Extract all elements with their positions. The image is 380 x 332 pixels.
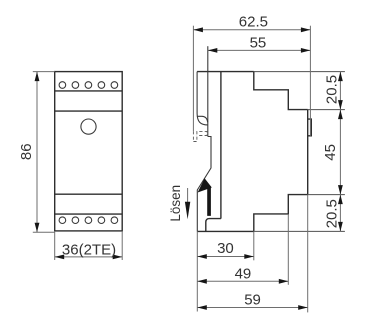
dim 45 arrow up xyxy=(338,110,343,120)
side view lower right step xyxy=(254,195,308,232)
din clip dashed foot xyxy=(193,141,198,143)
dim 20.5 top arrow down xyxy=(338,100,343,110)
dim 49 arrow right xyxy=(279,279,289,284)
side view right edge xyxy=(307,110,309,195)
dim 59 arrow right xyxy=(298,305,308,310)
front view outline xyxy=(55,72,123,231)
svg-text:20.5: 20.5 xyxy=(324,75,341,104)
release arrow thick xyxy=(207,186,211,216)
dim 86 arrow down xyxy=(35,223,40,233)
dim 36(2TE) line xyxy=(55,256,123,258)
dim 45 line xyxy=(339,110,341,195)
svg-text:30: 30 xyxy=(217,240,234,257)
side view foot xyxy=(206,219,221,232)
extension at bottom level 231.4 xyxy=(254,230,345,232)
dim 20.5 top arrow up xyxy=(338,72,343,82)
din clip slot bottom curve xyxy=(197,114,208,125)
front view lower panel line xyxy=(55,193,123,195)
dim 59 right extension xyxy=(307,195,309,313)
dim 20.5 bottom arrow down xyxy=(338,222,343,232)
dim 49 line xyxy=(197,280,288,282)
side view upper right step xyxy=(254,72,308,110)
extension at step level 194.6 xyxy=(308,194,345,196)
dim 30 line xyxy=(197,256,254,258)
dim 55 arrow left xyxy=(208,48,218,53)
din clip inner wall xyxy=(196,72,198,114)
din clip latch bottom edge xyxy=(197,116,208,122)
dim 36(2TE) extension left xyxy=(54,231,56,260)
front view bottom terminal line xyxy=(55,213,123,215)
dim 62.5 arrow right xyxy=(301,27,311,32)
dim 49 right extension xyxy=(287,214,289,285)
dim 86 extension top xyxy=(33,71,55,73)
dim 30 arrow right xyxy=(244,254,254,259)
dim 20.5 bottom arrow up xyxy=(338,195,343,205)
dim 36(2TE) arrow right xyxy=(113,255,123,260)
dim 36(2TE) extension right xyxy=(121,231,123,260)
din clip latch released dashed outline xyxy=(197,131,207,139)
release arrow thin down xyxy=(187,188,189,203)
front view bottom terminal circles xyxy=(59,217,118,224)
front view top terminal line xyxy=(55,90,123,92)
front view top terminal circles xyxy=(59,82,118,89)
side view top edge with right extension xyxy=(197,71,254,73)
dim 20.5 bottom line xyxy=(339,195,341,232)
svg-text:86: 86 xyxy=(18,143,35,160)
dim 86 extension bottom xyxy=(33,231,55,233)
dim 86 line xyxy=(36,72,38,233)
bottom dims left extension xyxy=(196,231,198,311)
dim 59 line xyxy=(197,307,307,309)
dim 45 arrow down xyxy=(338,185,343,195)
dim 86 arrow up xyxy=(35,72,40,82)
svg-text:45: 45 xyxy=(322,144,339,161)
dim 36(2TE) arrow left xyxy=(55,255,64,260)
side view interior front face line xyxy=(220,72,222,219)
extension at step level 109.6 xyxy=(308,109,345,111)
front view upper panel line xyxy=(55,110,123,112)
din clip outer wall / 62.5 extension xyxy=(192,26,194,132)
dim 20.5 top line xyxy=(339,72,341,110)
dim 30 arrow left xyxy=(197,254,207,259)
dim 55 line xyxy=(208,49,311,51)
din clip slot right wall / 55 extension xyxy=(207,46,209,136)
svg-text:55: 55 xyxy=(250,35,267,52)
side view bottom edge xyxy=(197,230,254,232)
dim 62.5 right extension xyxy=(309,26,311,136)
dim 62.5 arrow left xyxy=(193,27,203,32)
dim 62.5 line xyxy=(193,29,310,31)
svg-text:59: 59 xyxy=(244,292,261,309)
din clip outer wall dashed continuation xyxy=(192,131,194,142)
front view center circle xyxy=(81,119,96,134)
svg-text:49: 49 xyxy=(235,265,252,282)
svg-text:36(2TE): 36(2TE) xyxy=(62,241,116,258)
dim 55 arrow right xyxy=(301,48,311,53)
dim 30 right extension xyxy=(253,231,255,260)
dim 49 arrow left xyxy=(197,279,207,284)
svg-text:Lösen: Lösen xyxy=(168,185,183,222)
svg-text:62.5: 62.5 xyxy=(239,14,268,31)
side view right tab xyxy=(308,119,312,136)
svg-text:20.5: 20.5 xyxy=(324,199,341,228)
din clip lower contour xyxy=(197,137,211,232)
dim 59 arrow left xyxy=(197,305,207,310)
